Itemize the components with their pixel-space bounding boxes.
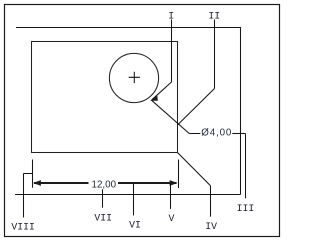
leader VIII elbow horizontal	[24, 173, 33, 175]
hole circle	[109, 53, 158, 102]
dimension arrow right	[170, 180, 178, 186]
svg-text:12,00: 12,00	[92, 179, 117, 190]
svg-text:III: III	[237, 203, 255, 214]
leader II diagonal to rectangle edge	[178, 89, 215, 126]
svg-text:IV: IV	[205, 221, 217, 232]
leader I diagonal to circle	[152, 82, 172, 100]
diameter leader landing dash left	[189, 133, 200, 135]
leader III vertical	[245, 134, 247, 199]
leader IV diagonal	[178, 153, 211, 186]
extension line right	[178, 160, 180, 189]
arrowhead at circle	[151, 96, 157, 100]
right bracket vertical	[240, 27, 242, 195]
diameter leader diagonal	[152, 100, 190, 133]
leader VII vertical	[102, 189, 104, 208]
dimension line right segment	[118, 182, 177, 184]
dimension arrow left	[33, 180, 41, 186]
leader IV vertical	[210, 186, 212, 217]
leader II vertical	[214, 20, 216, 89]
bottom rail line	[15, 194, 241, 196]
part rectangle	[32, 42, 178, 153]
leader V vertical	[170, 184, 172, 209]
diameter leader landing dash right	[232, 133, 245, 135]
center mark plus	[129, 72, 140, 83]
extension line left	[32, 160, 34, 188]
svg-text:VIII: VIII	[11, 221, 35, 232]
top rail line	[16, 27, 241, 29]
leader VIII vertical	[23, 174, 25, 218]
svg-text:VII: VII	[94, 213, 112, 224]
leader VI vertical	[133, 184, 135, 216]
dimension line left segment	[34, 182, 89, 184]
leader I vertical	[171, 20, 173, 83]
svg-text:V: V	[169, 213, 175, 224]
svg-text:VI: VI	[129, 219, 141, 230]
svg-text:Ø4,00: Ø4,00	[201, 127, 232, 138]
